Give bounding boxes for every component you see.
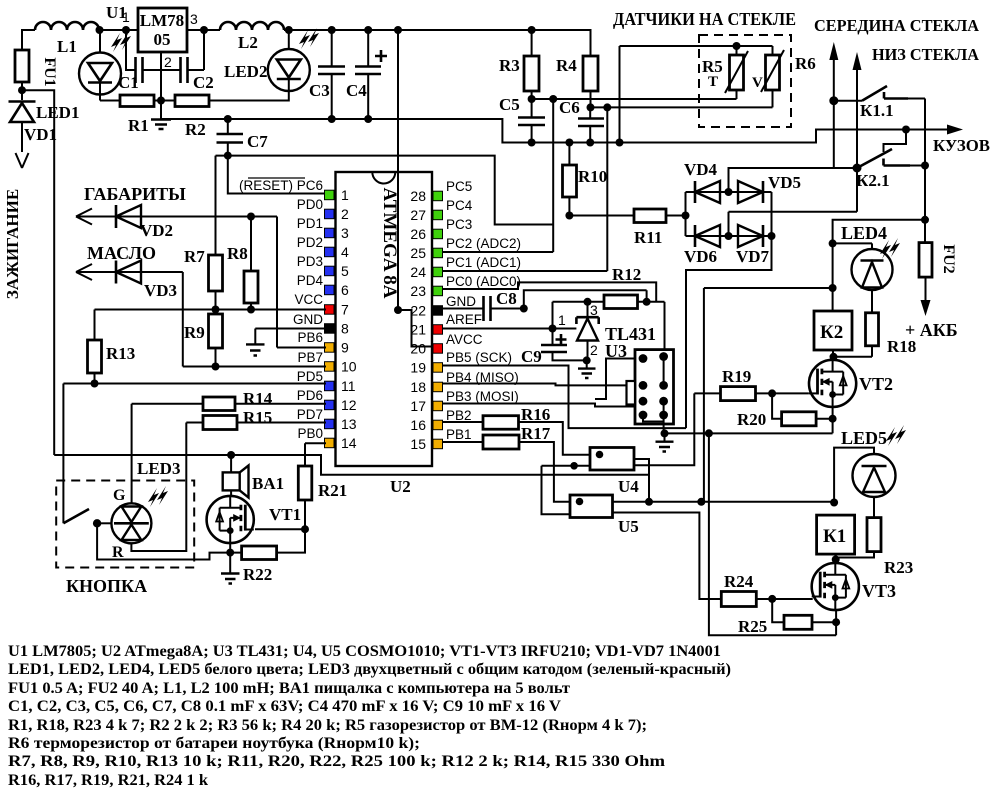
node: AVCC feed	[394, 26, 402, 34]
wire: sensor top line	[620, 46, 773, 143]
node: ADC1 tap	[603, 103, 611, 111]
svg-text:R24: R24	[724, 572, 754, 591]
svg-text:R6 терморезистор от батареи но: R6 терморезистор от батареи ноутбука (Rн…	[8, 735, 420, 752]
svg-text:PC4: PC4	[446, 198, 473, 213]
pin 1 square	[325, 190, 335, 200]
svg-text:PC1 (ADC1): PC1 (ADC1)	[446, 255, 521, 270]
diode VD4	[686, 191, 729, 193]
wire: bridge right rail	[771, 192, 773, 246]
svg-text:PD1: PD1	[297, 216, 323, 231]
svg-text:К2: К2	[820, 322, 843, 343]
svg-text:BA1: BA1	[252, 474, 284, 493]
resistor R2	[175, 95, 209, 107]
wire: VT1 source node	[229, 544, 231, 553]
svg-text:GND: GND	[293, 312, 323, 327]
LED1 flash arrows	[111, 33, 122, 52]
pin 3 square	[325, 228, 335, 238]
node: VD6/VD7 junction	[725, 232, 733, 240]
svg-text:9: 9	[341, 340, 349, 356]
svg-text:R7, R8, R9, R10, R13 10 k; R11: R7, R8, R9, R10, R13 10 k; R11, R20, R22…	[8, 753, 665, 770]
wire: U5 output rail to K1	[613, 501, 835, 503]
node: U4 input common	[570, 462, 578, 470]
resistor R15	[203, 416, 237, 430]
resistor R23	[867, 518, 881, 552]
node: FU1/VD1 junction	[18, 86, 26, 94]
resistor R9	[209, 314, 223, 348]
svg-text:C1: C1	[118, 73, 139, 92]
svg-text:C6: C6	[559, 98, 580, 117]
capacitor C5	[518, 118, 545, 126]
wire: U1 pin3 out	[187, 29, 220, 31]
resistor R14	[203, 397, 235, 411]
svg-text:МАСЛО: МАСЛО	[87, 243, 156, 263]
wire: K2 coil feed	[703, 288, 705, 502]
wire: button to VT1 source	[97, 523, 230, 559]
svg-text:VD2: VD2	[140, 221, 173, 240]
node: C3 top	[328, 26, 336, 34]
LED2 flash arrows	[299, 30, 310, 49]
node: C3 bottom	[328, 115, 336, 123]
shunt ref U3 TL431	[587, 302, 589, 317]
svg-text:PC5: PC5	[446, 179, 472, 194]
svg-text:1: 1	[341, 187, 349, 203]
svg-text:PD2: PD2	[297, 235, 323, 250]
node: R13 bottom	[91, 380, 99, 388]
svg-text:К1.1: К1.1	[860, 101, 894, 120]
pin 11 square	[325, 381, 335, 391]
svg-text:T: T	[708, 74, 718, 90]
svg-text:LM78: LM78	[140, 11, 184, 30]
pin 13 square	[325, 419, 335, 429]
svg-text:VD3: VD3	[144, 281, 177, 300]
pin 10 square	[325, 362, 335, 372]
svg-text:15: 15	[410, 436, 426, 452]
svg-text:PB3 (MOSI): PB3 (MOSI)	[446, 389, 519, 404]
svg-text:КУЗОВ: КУЗОВ	[933, 136, 990, 155]
svg-text:ГАБАРИТЫ: ГАБАРИТЫ	[84, 184, 186, 204]
pin 12 square	[325, 400, 335, 410]
svg-text:12: 12	[341, 397, 357, 413]
svg-text:C5: C5	[499, 95, 520, 114]
resistor R7	[209, 255, 223, 291]
pin 26 square	[433, 229, 443, 239]
node: LED4 branch	[921, 216, 929, 224]
svg-text:PD6: PD6	[297, 388, 323, 403]
capacitor C1	[136, 57, 143, 83]
wire: ISP jog	[595, 359, 643, 400]
pin 28 square	[433, 191, 443, 201]
svg-text:2: 2	[341, 206, 349, 222]
resistor R24	[721, 592, 756, 607]
svg-text:2: 2	[590, 342, 598, 358]
svg-text:U1 LM7805; U2 ATmega8A; U3 TL4: U1 LM7805; U2 ATmega8A; U3 TL431; U4, U5…	[8, 643, 721, 660]
LED LED1	[79, 53, 121, 95]
svg-text:3: 3	[190, 11, 198, 27]
svg-text:26: 26	[410, 226, 426, 242]
relay contact K1.1	[829, 96, 838, 105]
resistor R21	[298, 466, 312, 500]
svg-text:LED3: LED3	[137, 459, 180, 478]
wire: SCK pin19	[443, 366, 687, 429]
IC U2 ATmega8A body	[336, 172, 433, 466]
ground (ISP)	[664, 433, 666, 441]
button dashed box КНОПКА	[56, 481, 194, 568]
svg-text:ЗАЖИГАНИЕ: ЗАЖИГАНИЕ	[3, 189, 22, 299]
node: BA1 top	[227, 451, 235, 459]
wire: FU1 to VD1 node	[21, 82, 23, 100]
svg-text:AREF: AREF	[446, 312, 482, 327]
svg-text:VT3: VT3	[862, 581, 896, 601]
svg-text:VCC: VCC	[294, 292, 323, 307]
node: pin3 junction	[200, 26, 208, 34]
wire: VT1 gate line	[255, 528, 305, 530]
svg-text:PB2: PB2	[446, 408, 472, 423]
node: ISP ground node	[661, 429, 669, 437]
svg-text:FU2: FU2	[940, 244, 957, 273]
wire: bridge tail down to SCK line	[686, 246, 772, 428]
svg-text:C9: C9	[521, 347, 542, 366]
pin 15 square	[433, 439, 443, 449]
wire: +12V feed down right side (to y=455 line)	[22, 90, 54, 455]
resistor R1	[120, 95, 154, 107]
svg-text:PB1: PB1	[446, 427, 472, 442]
capacitor C8	[443, 308, 484, 310]
wire: PB7 pin10 line	[183, 366, 326, 368]
wire: sensor line T (y=99)	[532, 98, 737, 100]
MOSFET VT3	[812, 563, 859, 610]
wire: U1 pin2 down	[160, 52, 162, 119]
node: R8 bottom	[247, 306, 255, 314]
svg-text:PC0 (ADC0): PC0 (ADC0)	[446, 274, 521, 289]
node: C5 bottom	[528, 139, 536, 147]
svg-text:СЕРЕДИНА СТЕКЛА: СЕРЕДИНА СТЕКЛА	[814, 16, 980, 35]
capacitor C2	[181, 57, 188, 83]
node: K1/VT3 drain	[835, 554, 837, 564]
pin 6 square	[325, 285, 335, 295]
svg-text:C7: C7	[247, 132, 268, 151]
wire: VT2 drain node	[833, 350, 872, 360]
resistor R3	[524, 56, 539, 91]
wire: GND rail	[161, 119, 955, 143]
wire: U5 second output to R24	[613, 513, 722, 600]
diode VD5	[729, 191, 772, 193]
wire: RESET pin1	[228, 156, 326, 194]
svg-text:PD0: PD0	[297, 197, 323, 212]
optocoupler U4	[590, 448, 634, 471]
ground (pin8)	[246, 344, 265, 355]
svg-text:PD3: PD3	[297, 254, 323, 269]
wire: VCC pin7 line	[95, 309, 327, 311]
wire: AREF pin21	[443, 328, 577, 330]
svg-text:ATMEGA 8A: ATMEGA 8A	[379, 187, 400, 298]
svg-text:VD7: VD7	[736, 247, 770, 266]
svg-text:R8: R8	[227, 244, 248, 263]
svg-text:PC2 (ADC2): PC2 (ADC2)	[446, 236, 521, 251]
svg-text:21: 21	[410, 322, 426, 338]
node: C4 top	[364, 26, 372, 34]
node: TL431 anode	[583, 356, 591, 364]
svg-text:R9: R9	[184, 323, 205, 342]
pin 17 square	[433, 401, 443, 411]
wire: R1 to center node	[154, 100, 175, 102]
node: TL431 cathode	[584, 298, 592, 306]
resistor R22	[242, 546, 277, 560]
wire: VD3 to PB7 line	[182, 272, 184, 367]
node: C4 bottom	[364, 115, 372, 123]
varistor R6	[766, 55, 780, 90]
pin 24 square	[433, 267, 443, 277]
switch (button)	[63, 509, 89, 523]
svg-text:LED5: LED5	[841, 428, 887, 448]
svg-text:VT2: VT2	[859, 374, 893, 394]
svg-text:FU1: FU1	[41, 57, 58, 86]
wire: TL431 ref tie	[553, 302, 605, 329]
svg-text:R19: R19	[722, 367, 751, 386]
wire: R7 top feed	[215, 156, 217, 255]
wire: PB6 pin9	[277, 347, 326, 349]
wire: C7 node to ADC2 long route	[216, 156, 554, 225]
svg-text:НИЗ СТЕКЛА: НИЗ СТЕКЛА	[872, 45, 980, 64]
wire: R11 line	[569, 215, 685, 217]
svg-text:R3: R3	[499, 56, 520, 75]
diode VD7	[729, 235, 772, 237]
svg-text:R13: R13	[106, 344, 135, 363]
wire: LED1 to R1	[100, 100, 120, 102]
node: R9 bottom	[212, 363, 220, 371]
svg-text:27: 27	[410, 207, 426, 223]
pin 7 square	[325, 305, 335, 315]
capacitor C9 (polarized)	[552, 329, 554, 345]
svg-text:R4: R4	[556, 56, 577, 75]
node: C7 bottom / RESET	[224, 152, 232, 160]
svg-text:4: 4	[341, 244, 349, 260]
node: R4 bottom	[587, 103, 595, 111]
svg-text:5: 5	[341, 263, 349, 279]
node: R3 bottom	[528, 95, 536, 103]
wire: GND pin8	[255, 329, 326, 345]
pin 23 square	[433, 286, 443, 296]
wire: U4 outputs	[634, 459, 649, 502]
node: R1/R2/GND junction	[157, 97, 165, 105]
svg-text:К1: К1	[823, 526, 846, 547]
svg-text:22: 22	[410, 303, 426, 319]
svg-text:2: 2	[164, 54, 172, 70]
wire: +12V rail top	[22, 30, 35, 50]
svg-text:VD4: VD4	[684, 160, 718, 179]
wire: +12 line y=455	[54, 455, 649, 502]
svg-text:PB6: PB6	[297, 330, 323, 345]
pin 19 square	[433, 363, 443, 373]
svg-text:28: 28	[410, 188, 426, 204]
wire: LED5/K1 feed	[834, 448, 874, 503]
svg-text:R6: R6	[795, 54, 816, 73]
resistor R20	[782, 412, 817, 426]
svg-text:PB0: PB0	[297, 426, 323, 441]
wire: R2 to LED2 bottom	[209, 91, 289, 101]
wire: L1 to U1 pin1	[99, 29, 138, 31]
svg-text:C4: C4	[346, 81, 367, 100]
pin dots	[639, 354, 648, 363]
svg-text:AVCC: AVCC	[446, 332, 483, 347]
ground (VT1 source)	[229, 553, 231, 573]
svg-text:R: R	[112, 544, 124, 561]
wire: internal links	[643, 357, 664, 434]
pin 8 square	[325, 324, 335, 334]
svg-text:PD5: PD5	[297, 369, 323, 384]
svg-text:V: V	[752, 75, 763, 91]
wire: +5V rail	[284, 30, 591, 56]
capacitor C7	[217, 134, 244, 143]
wire: C8 node to R12 node	[524, 290, 647, 308]
svg-text:17: 17	[410, 398, 426, 414]
svg-text:11: 11	[341, 378, 356, 394]
resistor R19	[721, 387, 756, 401]
svg-text:FU1 0.5 A; FU2 40 A; L1, L2 10: FU1 0.5 A; FU2 40 A; L1, L2 100 mH; BA1 …	[8, 680, 570, 697]
wire: button feed down	[62, 384, 64, 524]
pin 9 square	[325, 343, 335, 353]
wire: R12 node to ISP box	[664, 302, 666, 357]
svg-text:23: 23	[410, 283, 426, 299]
svg-text:R2: R2	[185, 120, 206, 139]
svg-text:1: 1	[122, 9, 130, 25]
wire: ground rail down to VT3 source	[709, 433, 836, 635]
pin 16 square	[433, 420, 443, 430]
wire: R15 to LED3 red	[131, 423, 186, 552]
node: R10 top	[565, 139, 573, 147]
svg-text:L1: L1	[57, 37, 77, 56]
svg-text:R1: R1	[128, 116, 149, 135]
sensors dashed box	[699, 35, 791, 127]
wire: MISO pin18	[443, 384, 644, 386]
svg-text:G: G	[113, 487, 126, 504]
svg-text:18: 18	[410, 379, 426, 395]
svg-text:К2.1: К2.1	[856, 171, 890, 190]
node: ADC2 tap	[549, 95, 557, 103]
svg-text:R22: R22	[243, 565, 272, 584]
pin 18 square	[433, 382, 443, 392]
svg-text:R7: R7	[184, 247, 205, 266]
resistor R12	[604, 295, 638, 309]
svg-text:R15: R15	[243, 408, 272, 427]
LED LED2	[268, 49, 310, 91]
resistor R11	[634, 209, 666, 223]
node: LED2 top	[285, 26, 293, 34]
wire: PB0 pin14 to R21	[305, 443, 326, 466]
fuse FU2	[924, 243, 926, 247]
svg-text:C2: C2	[193, 73, 214, 92]
svg-text:7: 7	[341, 302, 349, 318]
relay coil K2	[814, 311, 852, 350]
thermistor R5	[730, 55, 744, 90]
pin 20 square	[433, 344, 443, 354]
svg-text:PC3: PC3	[446, 217, 472, 232]
svg-text:GND: GND	[446, 294, 476, 309]
pin 25 square	[433, 248, 443, 258]
svg-text:R16, R17, R19, R21, R24 1 k: R16, R17, R19, R21, R24 1 k	[8, 772, 208, 789]
svg-text:(RESET) PC6: (RESET) PC6	[239, 178, 323, 193]
svg-text:C3: C3	[309, 81, 330, 100]
node: VD7 out	[768, 232, 776, 240]
svg-text:VD6: VD6	[684, 247, 717, 266]
wire: R14 to LED3 green	[131, 404, 133, 504]
wire: source/ground rail to VT2	[665, 432, 833, 434]
resistor R25	[784, 615, 812, 629]
wire: VT3 source	[835, 609, 837, 635]
resistor R10	[563, 165, 577, 197]
node: KUZOV line junction	[902, 126, 910, 134]
fuse FU1	[15, 50, 29, 82]
svg-text:VT1: VT1	[269, 505, 301, 524]
node: R3 top	[528, 26, 536, 34]
svg-text:20: 20	[410, 341, 426, 357]
optocoupler U5	[570, 495, 613, 518]
ground (U1 pin2)	[151, 120, 171, 130]
diode VD1	[9, 100, 36, 103]
svg-text:LED1, LED2, LED4, LED5 белого: LED1, LED2, LED4, LED5 белого цвета; LED…	[8, 661, 731, 678]
svg-text:КНОПКА: КНОПКА	[66, 576, 147, 596]
connector U3 package (8-pin box)	[635, 350, 674, 424]
svg-text:16: 16	[410, 417, 426, 433]
wire: VD6/7 node up-right to K2.1 line	[729, 212, 858, 236]
svg-text:24: 24	[410, 264, 426, 280]
svg-text:R12: R12	[612, 265, 641, 284]
svg-text:R14: R14	[243, 389, 273, 408]
node: R8 top	[247, 213, 255, 221]
svg-text:ДАТЧИКИ НА СТЕКЛЕ: ДАТЧИКИ НА СТЕКЛЕ	[613, 9, 796, 29]
ground (TL431)	[586, 360, 588, 368]
svg-text:R20: R20	[737, 410, 766, 429]
pin 27 square	[433, 210, 443, 220]
svg-text:1: 1	[558, 312, 566, 328]
svg-text:PD4: PD4	[297, 273, 324, 288]
svg-text:VD5: VD5	[768, 173, 801, 192]
capacitor C6	[578, 119, 604, 127]
wire: K1.1 out down	[924, 99, 926, 243]
svg-text:U2: U2	[390, 477, 411, 496]
node: C6 bottom	[586, 139, 594, 147]
node: R5 rail junction	[616, 139, 624, 147]
wire: ADC2 vertical	[552, 99, 554, 252]
svg-text:14: 14	[341, 435, 357, 451]
resistor R17	[443, 441, 484, 443]
wire: bridge left rail	[685, 192, 687, 236]
svg-text:+ АКБ: + АКБ	[905, 320, 958, 340]
wire: AVCC internal feed	[398, 30, 433, 347]
node: L1/LED1 junction	[96, 26, 104, 34]
svg-text:19: 19	[410, 360, 426, 376]
node: bridge left	[682, 212, 690, 220]
svg-text:C8: C8	[496, 289, 517, 308]
pin 22 square	[433, 306, 443, 316]
wire: sensor line V (y=107.4)	[591, 106, 773, 108]
svg-text:PD7: PD7	[297, 407, 323, 422]
resistor R4	[583, 56, 598, 91]
capacitor C4 (polarized)	[355, 67, 381, 75]
inductor L1	[35, 22, 99, 30]
relay contact K2.1	[853, 164, 862, 173]
wire: PD5 pin11 line	[63, 383, 326, 385]
node: R10 bottom	[565, 212, 573, 220]
node: R5 top	[733, 42, 741, 50]
svg-text:R10: R10	[578, 167, 607, 186]
svg-text:6: 6	[341, 282, 349, 298]
svg-text:3: 3	[590, 302, 598, 318]
wire: ADC2 pin25	[443, 251, 554, 253]
wire: battery feed to LED4/K2	[833, 220, 925, 311]
pin 21 square	[433, 325, 443, 335]
svg-text:R1, R18, R23 4 k 7; R2 2 k 2;: R1, R18, R23 4 k 7; R2 2 k 2; R3 56 k; R…	[8, 717, 647, 734]
relay coil K1	[817, 515, 855, 554]
